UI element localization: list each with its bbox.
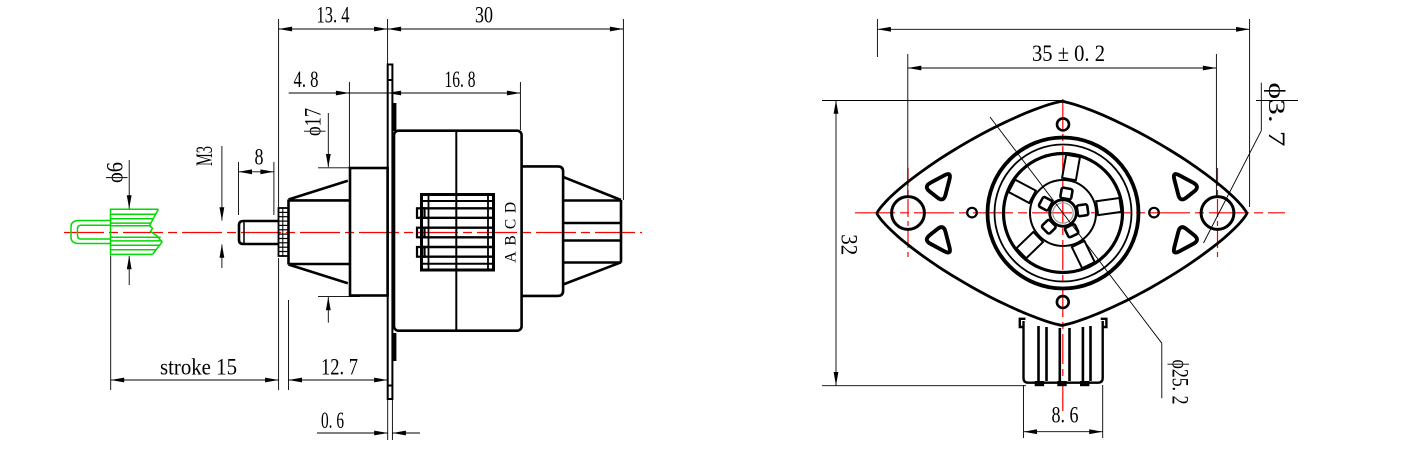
svg-text:32: 32 (837, 234, 862, 255)
extension lines (278, 19, 280, 207)
motor body (394, 131, 522, 331)
body circles (988, 138, 1139, 289)
svg-text:B: B (503, 235, 520, 245)
green slider nut: tube (71, 221, 111, 244)
center hole (1050, 200, 1077, 227)
triangle cutouts (927, 174, 1197, 253)
connector (side view) (417, 195, 494, 271)
svg-text:12. 7: 12. 7 (321, 355, 358, 380)
svg-text:0. 6: 0. 6 (321, 408, 344, 433)
threaded collar (279, 208, 289, 256)
dim texts right view (837, 41, 1290, 428)
rotor blades (5) (1009, 155, 1122, 269)
svg-text:8: 8 (255, 145, 264, 170)
svg-text:D: D (503, 202, 520, 213)
small screw holes (1057, 118, 1069, 130)
mounting flange plate (388, 65, 393, 400)
red centerlines (855, 99, 1285, 413)
dim texts left view (103, 3, 494, 434)
front housing (phi17) (350, 168, 388, 296)
front cone boss (289, 181, 351, 283)
svg-text:C: C (503, 219, 520, 229)
svg-text:ϕ17: ϕ17 (301, 108, 326, 136)
green slider nut: threaded body with broken edge (111, 209, 163, 254)
svg-text:stroke 15: stroke 15 (160, 355, 237, 380)
svg-text:A: A (503, 251, 520, 263)
svg-text:M3: M3 (192, 146, 217, 166)
svg-text:13. 4: 13. 4 (317, 3, 350, 28)
arrowheads left view (279, 27, 293, 32)
bottom connector (1020, 319, 1107, 383)
centerline (red) of left view (64, 232, 642, 234)
svg-text:16. 8: 16. 8 (445, 67, 476, 92)
lead screw shaft M3 (239, 221, 279, 244)
pin labels A B C D (503, 202, 520, 263)
rear housing (522, 166, 564, 296)
svg-text:ϕ25. 2: ϕ25. 2 (1168, 360, 1193, 405)
svg-text:30: 30 (475, 3, 493, 28)
dim lines (279, 28, 388, 30)
svg-text:8. 6: 8. 6 (1052, 403, 1079, 428)
svg-text:35 ± 0. 2: 35 ± 0. 2 (1032, 41, 1105, 66)
svg-text:ϕ6: ϕ6 (103, 162, 128, 183)
rotor tabs (5) (1038, 187, 1088, 237)
diamond flange outline (877, 101, 1247, 325)
svg-text:4. 8: 4. 8 (294, 67, 319, 92)
svg-text:ϕ3. 7: ϕ3. 7 (1264, 83, 1289, 147)
mounting holes (892, 197, 925, 230)
rear cone boss (563, 177, 621, 285)
